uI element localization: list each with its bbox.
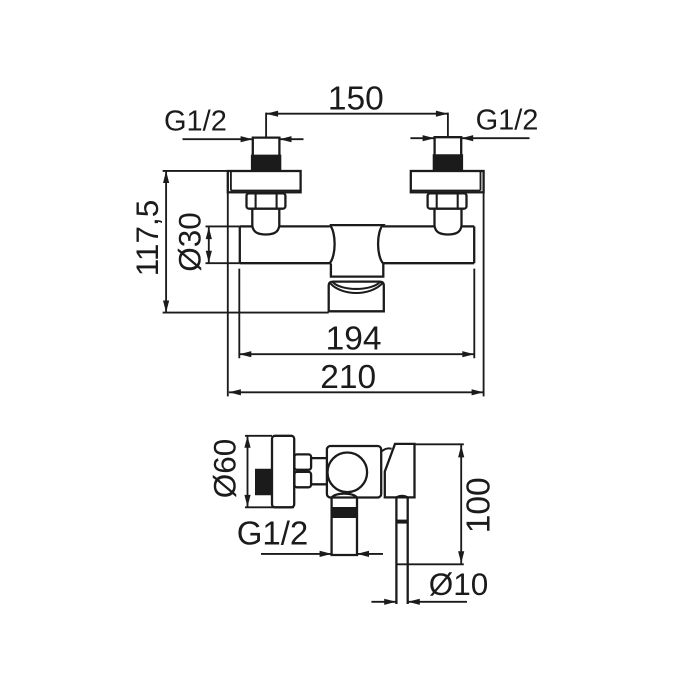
dimension O30 line bbox=[208, 227, 210, 263]
hex nut side upper bbox=[294, 454, 311, 469]
svg-text:G1/2: G1/2 bbox=[164, 106, 227, 138]
right plate inner edge bbox=[411, 190, 481, 192]
svg-text:G1/2: G1/2 bbox=[476, 105, 539, 137]
mixer body bar bbox=[240, 225, 253, 227]
dimension 210 line bbox=[229, 391, 484, 393]
dimension 210 extension right bbox=[483, 192, 485, 396]
cartridge skirt bbox=[331, 264, 383, 277]
hex nut side lower bbox=[294, 472, 311, 487]
dimension 117,5 line bbox=[165, 171, 167, 313]
dimension O60 extension top bbox=[245, 435, 272, 437]
dimension 117,5 extension bottom bbox=[163, 312, 329, 314]
hose pin band bbox=[396, 520, 407, 524]
left hex nut facets bbox=[255, 194, 257, 207]
hose pin bbox=[396, 497, 407, 604]
svg-text:210: 210 bbox=[320, 359, 376, 396]
right hex nut facets bbox=[436, 194, 438, 207]
lever fillet bbox=[382, 448, 392, 451]
dimension O30 extension bottom bbox=[206, 262, 240, 264]
dimension 100 extension bottom bbox=[396, 563, 463, 565]
svg-text:100: 100 bbox=[461, 477, 498, 533]
dimension 100 extension top bbox=[415, 443, 464, 445]
dimension 194 extension right bbox=[473, 269, 475, 359]
wall thread block bbox=[255, 469, 272, 495]
svg-text:Ø60: Ø60 bbox=[207, 439, 243, 499]
handle dome bbox=[330, 282, 382, 293]
G1/2 bottom arrows bbox=[261, 553, 331, 555]
cartridge spool bbox=[329, 225, 383, 263]
dimension 117,5 extension top bbox=[163, 170, 228, 172]
wall flange side bbox=[272, 436, 294, 508]
G1/2 left leader arrows bbox=[183, 138, 252, 140]
outlet dome bbox=[332, 494, 357, 498]
svg-text:Ø30: Ø30 bbox=[172, 212, 208, 272]
dimension 100 line bbox=[460, 444, 462, 564]
right hex nut bbox=[428, 193, 467, 208]
dimension O60 line bbox=[247, 436, 249, 508]
svg-text:150: 150 bbox=[328, 81, 384, 118]
svg-text:194: 194 bbox=[326, 320, 382, 357]
dimension O30 extension top bbox=[206, 225, 240, 227]
left plate inner edge bbox=[231, 190, 301, 192]
dimension 194 line bbox=[239, 353, 474, 355]
right eccentric cone bbox=[435, 209, 462, 235]
svg-text:G1/2: G1/2 bbox=[237, 514, 309, 551]
dimension 150 extension right bbox=[447, 113, 449, 138]
cartridge circle bbox=[328, 453, 368, 493]
dimension O10 arrows bbox=[371, 601, 395, 603]
dimension O60 extension bottom bbox=[245, 506, 294, 508]
right pipe thread bbox=[433, 154, 463, 171]
left pipe thread bbox=[251, 155, 281, 171]
svg-text:117,5: 117,5 bbox=[129, 200, 165, 277]
connector tube side bbox=[311, 458, 327, 484]
left escutcheon plate bbox=[228, 171, 301, 192]
lever handle side bbox=[385, 444, 415, 498]
svg-text:Ø10: Ø10 bbox=[429, 566, 489, 602]
left inlet pipe bbox=[253, 138, 280, 171]
valve body side bbox=[327, 446, 381, 498]
right inlet pipe bbox=[435, 137, 462, 171]
dimension 210 extension left bbox=[227, 192, 229, 396]
outlet tube bbox=[332, 498, 357, 556]
hose pin dome bbox=[396, 496, 407, 498]
dimension 150 line bbox=[266, 113, 448, 115]
outlet thread band bbox=[332, 507, 357, 518]
left eccentric cone bbox=[252, 209, 279, 235]
dimension 194 extension left bbox=[238, 269, 240, 359]
handle cup bbox=[329, 282, 384, 312]
right escutcheon plate bbox=[411, 171, 484, 192]
left hex nut bbox=[247, 193, 286, 208]
G1/2 right leader arrows bbox=[410, 137, 434, 139]
dimension 150 extension left bbox=[265, 113, 267, 139]
